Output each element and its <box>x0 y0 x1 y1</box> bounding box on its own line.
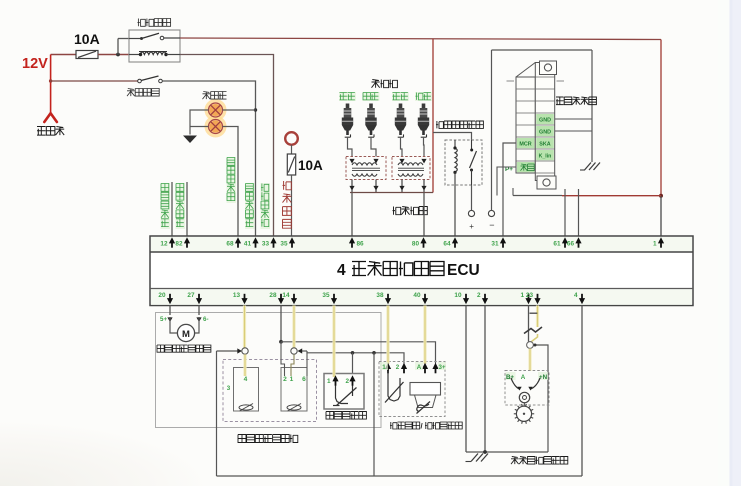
wire connector bottom row stub <box>497 167 516 196</box>
label 刹车灯 brake lamps <box>203 92 227 100</box>
wire return drop to bottom bus <box>216 351 218 476</box>
intake sensor dashed box <box>379 362 445 417</box>
junction node D <box>279 340 283 344</box>
fuse F1 10A body <box>76 51 98 59</box>
svg-text:61: 61 <box>553 241 561 248</box>
junction node B <box>659 194 663 198</box>
crank wire lower (yellow) <box>532 334 538 342</box>
wire signal rail H2 <box>307 351 404 364</box>
wire H2 branch to TPS2 pin6 <box>306 353 308 376</box>
wire relay coil output <box>180 55 274 237</box>
wire connector loop right <box>591 50 593 162</box>
wire connector MCR to ECU pin 31 <box>503 143 516 236</box>
right lavender margin strip <box>718 0 730 486</box>
brake lamp L2 <box>209 120 223 134</box>
connector pin MCR (green) <box>517 138 535 148</box>
ground G1 (lamps) <box>183 136 197 144</box>
junction node E <box>351 351 355 355</box>
spark plug P4 <box>422 104 426 109</box>
ground G3 <box>471 454 488 462</box>
wire ECU pin 40 to intake pin3 <box>423 306 426 364</box>
wire H2 drop to bottom bus <box>373 353 375 476</box>
svg-text:B+: B+ <box>506 374 514 381</box>
crank wire zigzag <box>524 327 542 334</box>
relay K1 coil <box>129 54 140 56</box>
junction node A (fuse/relay) <box>116 53 120 57</box>
ECU top pin arrows <box>169 237 175 243</box>
svg-text:4: 4 <box>337 262 346 279</box>
fuse F2 10A body <box>287 154 295 175</box>
junction node G <box>483 450 487 454</box>
wire ECU pin 2 to ground bus <box>484 306 486 453</box>
svg-text:12V: 12V <box>22 56 48 72</box>
wire battery drop <box>50 55 52 114</box>
wire C2 into TPS2 <box>291 354 294 376</box>
label signal 1 (vertical green) <box>161 183 171 229</box>
svg-text:1: 1 <box>520 292 524 299</box>
wire C3 return to ground bus <box>534 345 549 452</box>
terminal plus <box>468 210 474 216</box>
wire ECU pin 1b down <box>528 306 530 342</box>
label 蓄电池 battery <box>37 127 64 136</box>
crank plug contact C3 <box>527 342 534 349</box>
svg-text:1: 1 <box>653 241 657 248</box>
wire ignition switch to fuse <box>291 145 293 154</box>
WT pin arrows <box>332 375 338 381</box>
svg-text:13: 13 <box>233 292 241 299</box>
wire connector GND row 1 <box>555 118 592 120</box>
svg-text:M: M <box>182 329 190 340</box>
wire ECU pin 10 to ground bus <box>465 306 467 453</box>
svg-text:10A: 10A <box>298 158 323 173</box>
throttle outer box <box>156 313 382 428</box>
svg-text:64: 64 <box>443 241 451 248</box>
wire coil T1 to ECU pin 86 <box>351 193 353 237</box>
wire ECU pin 38 to intake pin1 <box>386 306 389 364</box>
label 点火线圈 ignition coils <box>393 207 428 215</box>
wire into C2 (arrow) <box>299 350 308 352</box>
wire relay switch output (top rail) <box>180 38 661 40</box>
svg-text:A: A <box>521 374 526 381</box>
wire connector loop top <box>492 49 593 51</box>
label 进气温度/压力传感器 <box>390 422 420 429</box>
wire 12V rail to fuse <box>51 54 76 56</box>
relay K2 switch <box>471 140 473 149</box>
wire brake switch to lamp node <box>162 81 255 236</box>
wire 5V rail H1 <box>281 342 436 364</box>
label cylinder 2 (green) <box>363 92 380 101</box>
svg-text:K_lin: K_lin <box>539 154 552 160</box>
terminal minus <box>488 210 494 216</box>
TPS2 potentiometer <box>287 405 301 410</box>
label 曲轴位置传感器 <box>511 457 568 465</box>
svg-text:GND: GND <box>539 118 551 124</box>
svg-text:10: 10 <box>454 292 462 299</box>
wire connector lower bus <box>513 195 562 197</box>
wire bottom bus <box>217 475 583 477</box>
MAP squiggle <box>417 404 429 412</box>
wire plug1 to coil T1 <box>348 138 353 157</box>
label 火花塞 spark plugs <box>372 80 398 88</box>
svg-text:27: 27 <box>187 292 195 299</box>
label 点火开关 ignition switch (vertical red) <box>283 181 292 228</box>
label 电子节气门阀体 <box>238 435 298 443</box>
wire ignition power branch <box>432 39 434 193</box>
wire ECU pin 14 to throttle plug C2 <box>292 306 295 348</box>
intake pin labels (green) <box>380 362 388 370</box>
label signal 5 (vertical green) <box>261 183 271 229</box>
svg-text:68: 68 <box>226 241 234 248</box>
svg-text:23: 23 <box>526 292 534 299</box>
label cylinder 3 (green) <box>392 92 409 101</box>
svg-text:10A: 10A <box>74 31 100 47</box>
throttle sub-box TPS2 <box>281 368 307 412</box>
wire C3 to sensor <box>528 349 531 371</box>
wire ECU pin 4 right edge drop <box>581 306 583 477</box>
label 水温传感器 <box>326 412 366 420</box>
svg-text:1: 1 <box>290 376 294 383</box>
wire L-line to ECU pin 66 <box>578 189 580 236</box>
spark plug P1 <box>346 104 350 109</box>
connector pin GND2 (green) <box>536 126 554 136</box>
wire indicator stub 2 <box>186 182 188 236</box>
label 刹车开关 brake switch <box>127 89 159 97</box>
ignition coil T2 <box>392 157 430 180</box>
ignition coil T1 <box>346 157 386 180</box>
MAP sensor body <box>410 383 441 396</box>
ECU inner line bottom <box>150 288 693 290</box>
main relay K1 box <box>129 30 180 62</box>
ECU inner line top <box>150 251 693 253</box>
svg-text:4: 4 <box>574 292 578 299</box>
wire fuse to relay junction <box>98 54 129 56</box>
svg-text:14: 14 <box>282 292 290 299</box>
svg-text:2: 2 <box>283 376 287 383</box>
svg-text:35: 35 <box>322 292 330 299</box>
throttle motor M1 <box>177 324 194 341</box>
svg-text:5+: 5+ <box>160 316 167 323</box>
label 继电器电磁阀 relay/solenoid <box>436 121 483 128</box>
svg-text:31: 31 <box>491 241 499 248</box>
throttle plug contact C2 <box>291 348 297 354</box>
svg-text:86: 86 <box>357 241 365 248</box>
ground bus <box>466 451 548 453</box>
wire ECU pin 27 to motor <box>198 306 200 316</box>
crank gear teeth <box>532 413 535 415</box>
wire plug2cyl to coil T2 <box>401 138 403 157</box>
label 电子节气门电机 <box>157 345 211 352</box>
connector pin GND1 (green) <box>536 114 554 124</box>
ignition switch SW1 <box>285 132 298 145</box>
relay K2 box <box>445 140 482 185</box>
wire lamp2 right to ECU pin 68 <box>223 127 239 237</box>
svg-text:A: A <box>417 364 422 371</box>
wire ECU pin 20 to motor <box>169 306 171 316</box>
wire node D into TPS2 <box>281 342 285 376</box>
svg-text:2: 2 <box>396 364 400 371</box>
connector pin blank (green) <box>517 162 535 172</box>
wire ring to gear <box>523 403 526 407</box>
relay K1 switch contact wire left <box>129 38 141 40</box>
relay K2 coil <box>454 140 456 147</box>
svg-text:−: − <box>489 220 494 230</box>
wire fuse F2 to ECU pin 35 <box>291 175 293 236</box>
lamp glow <box>205 99 227 121</box>
wire rail to brake switch <box>49 79 52 82</box>
svg-text:GND: GND <box>539 130 551 136</box>
ECU box <box>150 236 693 306</box>
connector J1 pin rows <box>516 88 535 90</box>
svg-text:3: 3 <box>227 385 231 392</box>
svg-text:80: 80 <box>412 241 420 248</box>
water temp sensor box <box>324 374 364 410</box>
svg-text:38: 38 <box>376 292 384 299</box>
wire minus terminal riser <box>491 50 493 210</box>
brake switch S1 <box>138 79 142 83</box>
wire ECU pin 23 down (yellow) <box>536 306 539 328</box>
label signal 4 (vertical green) <box>245 183 255 229</box>
crank pickup ring <box>519 392 529 402</box>
wire K2 switch to plus terminal <box>471 185 473 210</box>
wire ECU pin 28 down <box>280 306 282 342</box>
svg-text:+N: +N <box>539 374 548 381</box>
connector J1 top mounting ear <box>540 61 557 75</box>
svg-text:MCR: MCR <box>519 142 531 148</box>
svg-text:1: 1 <box>327 378 331 385</box>
connector polarity ticks <box>507 80 515 82</box>
throttle plug contact C1 <box>242 348 248 354</box>
svg-text:4: 4 <box>244 376 248 383</box>
battery terminal arrowhead <box>44 113 57 122</box>
wire coil feed bus <box>350 192 433 194</box>
intake pin arrows <box>385 363 391 369</box>
wire K2 coil to ECU pin 64 <box>454 185 456 236</box>
ECU pin strips tint <box>151 237 692 252</box>
connector pin SKA (green) <box>536 138 554 148</box>
wire connector GND row 2 <box>555 130 592 132</box>
brake lamp L1 <box>209 103 223 117</box>
spark plug P3 <box>399 104 403 109</box>
label signal 3 (vertical green) <box>227 157 237 203</box>
ground G2 (connector) <box>585 163 601 171</box>
svg-text:40: 40 <box>413 292 421 299</box>
svg-text:2: 2 <box>477 292 481 299</box>
label cylinder 4 (green) <box>415 92 432 101</box>
crank sensor pin marks (green) <box>506 372 516 380</box>
thermistor RT1 <box>336 386 349 404</box>
wire C1 return (left) <box>217 350 241 352</box>
wire plug3cyl to coil T2 <box>423 138 426 157</box>
wire node B to ECU pin 1 <box>660 196 662 236</box>
label cylinder 1 (green) <box>339 92 356 101</box>
svg-text:+: + <box>469 222 474 231</box>
junction node C (lamp tap) <box>254 108 257 111</box>
crank trigger gear <box>516 406 531 421</box>
throttle body dashed box <box>223 360 317 422</box>
crank sensor dashed box <box>505 371 549 406</box>
svg-text:6-: 6- <box>203 316 209 323</box>
thermistor RT2 <box>388 371 400 401</box>
throttle sub-box TPS1 <box>234 368 259 412</box>
wire ECU pin 13 to throttle plug C1 <box>243 306 246 348</box>
wire ECU pin 35b to WT pin1 lower <box>332 342 335 377</box>
svg-text:12: 12 <box>160 241 168 248</box>
wire indicator stub 1 <box>171 182 173 236</box>
svg-text:3+: 3+ <box>438 364 445 371</box>
svg-text:33: 33 <box>262 241 270 248</box>
wire top rail drop right <box>660 40 662 196</box>
wire C1 into TPS1 <box>243 354 246 376</box>
wire K-line to ECU pin 61 <box>564 189 566 236</box>
crank wire tick <box>530 312 538 314</box>
svg-text:20: 20 <box>158 292 166 299</box>
svg-text:35: 35 <box>280 241 288 248</box>
ECU bottom pin arrows <box>167 298 173 304</box>
svg-text:28: 28 <box>269 292 277 299</box>
wire ECU pin 35b to WT pin1 <box>332 306 335 342</box>
svg-text:ECU: ECU <box>447 262 480 279</box>
connector J1 bottom mounting ear <box>537 176 556 189</box>
wire power to solenoid switch <box>433 133 472 141</box>
svg-text:66: 66 <box>567 241 575 248</box>
wire coil T2 to ECU pin 80 <box>423 193 425 237</box>
junction node F <box>372 351 376 355</box>
spark plug P2 <box>369 104 373 109</box>
label 自诊断接头 diagnostic connector <box>556 97 596 105</box>
wire lamp1 right <box>223 109 256 111</box>
svg-text:SKA: SKA <box>539 142 550 148</box>
label 主继电器 main relay <box>138 19 171 27</box>
relay K1 switch <box>140 37 143 40</box>
label signal 2 (vertical green) <box>176 183 186 229</box>
TPS1 potentiometer <box>239 405 253 410</box>
svg-text:2: 2 <box>346 378 350 385</box>
wire plug4cyl to coil T1 <box>371 138 376 157</box>
wire lamps to ground <box>190 110 209 135</box>
connector pin K-line (green) <box>536 150 554 160</box>
svg-text:6: 6 <box>302 376 306 383</box>
connector J1 body <box>516 77 535 173</box>
MAP sensor lower <box>415 395 437 408</box>
svg-text:41: 41 <box>244 241 252 248</box>
wire H2 to water temp pin2 <box>352 353 354 377</box>
crank sensor field arrows <box>511 378 519 389</box>
svg-text:1: 1 <box>382 364 386 371</box>
svg-text:82: 82 <box>175 241 183 248</box>
